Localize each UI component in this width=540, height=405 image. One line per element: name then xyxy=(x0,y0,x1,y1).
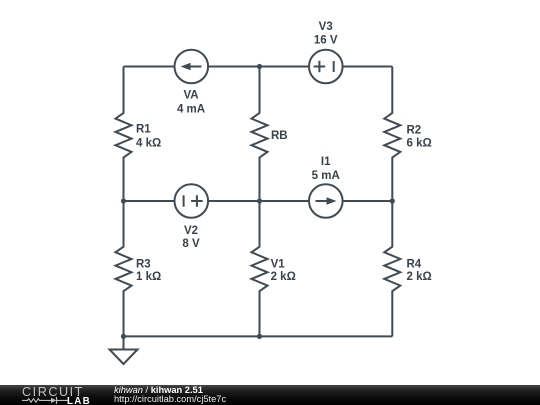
junction node bottom-middle xyxy=(257,334,262,339)
svg-text:R2: R2 xyxy=(407,124,422,136)
junction node bottom-left xyxy=(121,334,126,339)
svg-text:R1: R1 xyxy=(136,124,151,136)
svg-text:2 kΩ: 2 kΩ xyxy=(407,271,432,283)
arrow head I1 xyxy=(327,197,337,205)
svg-text:2 kΩ: 2 kΩ xyxy=(271,271,296,283)
current source VA xyxy=(175,50,209,84)
svg-text:4 mA: 4 mA xyxy=(177,103,205,115)
svg-text:RB: RB xyxy=(271,130,288,142)
wire middle horizontal xyxy=(124,200,393,202)
svg-text:V1: V1 xyxy=(271,258,286,270)
junction node top-middle xyxy=(257,64,262,69)
svg-text:6 kΩ: 6 kΩ xyxy=(407,138,432,150)
footer bar xyxy=(0,385,540,405)
svg-text:VA: VA xyxy=(183,90,198,102)
svg-text:R4: R4 xyxy=(407,258,422,270)
logo squiggle xyxy=(22,395,70,405)
voltage source V3 xyxy=(309,50,343,84)
wire right rail with resistor R2 and resistor R4 bodies xyxy=(384,67,400,337)
current source I1 xyxy=(309,184,343,218)
wire top horizontal xyxy=(124,66,393,68)
voltage source V2 xyxy=(175,184,209,218)
logo LAB xyxy=(67,396,91,405)
svg-text:I1: I1 xyxy=(321,156,331,168)
arrow head VA xyxy=(181,63,191,71)
svg-text:R3: R3 xyxy=(136,258,151,270)
junction node mid-right xyxy=(390,198,395,203)
svg-text:1 kΩ: 1 kΩ xyxy=(136,271,161,283)
wire left rail with resistor R1 and resistor R3 bodies xyxy=(116,67,132,350)
wire middle rail with resistor RB and resistor V1 bodies xyxy=(252,67,268,337)
svg-text:16 V: 16 V xyxy=(314,34,338,46)
logo CIRCUIT xyxy=(22,385,84,399)
credit text xyxy=(113,383,115,385)
svg-text:8 V: 8 V xyxy=(182,238,200,250)
junction node mid-left xyxy=(121,198,126,203)
ground xyxy=(110,350,138,365)
svg-text:V3: V3 xyxy=(319,21,333,33)
junction node mid-middle xyxy=(257,198,262,203)
svg-text:V2: V2 xyxy=(184,225,198,237)
svg-text:5 mA: 5 mA xyxy=(312,170,340,182)
svg-text:4 kΩ: 4 kΩ xyxy=(136,138,161,150)
wire bottom horizontal xyxy=(124,335,393,337)
